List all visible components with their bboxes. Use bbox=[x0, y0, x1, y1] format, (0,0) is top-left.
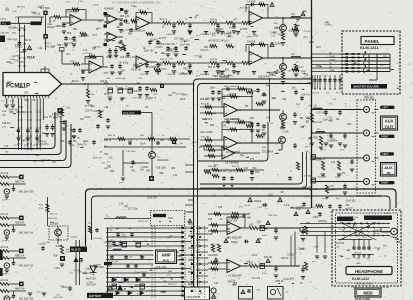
svg-text:CN4: CN4 bbox=[316, 47, 321, 49]
svg-text:2SK30A: 2SK30A bbox=[50, 222, 59, 225]
svg-text:10u 25V: 10u 25V bbox=[311, 92, 320, 94]
svg-text:R31: R31 bbox=[250, 118, 255, 120]
svg-text:+4E: +4E bbox=[51, 46, 55, 48]
svg-text:R44: R44 bbox=[19, 107, 24, 109]
svg-text:0.0022uF: 0.0022uF bbox=[166, 34, 176, 36]
svg-text:IN: IN bbox=[387, 171, 391, 176]
svg-text:R2 1k: R2 1k bbox=[25, 40, 32, 42]
svg-text:1M: 1M bbox=[130, 167, 133, 169]
svg-text:470uF 6E: 470uF 6E bbox=[131, 70, 141, 72]
svg-text:+5V: +5V bbox=[107, 266, 111, 268]
svg-text:+R 2.2k: +R 2.2k bbox=[0, 214, 9, 216]
svg-text:2SC2240A: 2SC2240A bbox=[262, 151, 274, 154]
svg-text:C41: C41 bbox=[290, 278, 295, 280]
svg-text:R44: R44 bbox=[347, 124, 352, 126]
svg-text:22uF 16V: 22uF 16V bbox=[62, 287, 72, 289]
svg-text:R19: R19 bbox=[110, 171, 115, 173]
svg-text:0.0022: 0.0022 bbox=[141, 167, 149, 169]
svg-text:0.047u: 0.047u bbox=[297, 207, 304, 209]
svg-text:R17: R17 bbox=[80, 119, 85, 121]
svg-text:KLB-1469: KLB-1469 bbox=[156, 267, 167, 269]
svg-text:22uF 16V: 22uF 16V bbox=[180, 45, 190, 47]
svg-text:R23 10k: R23 10k bbox=[303, 187, 312, 189]
svg-text:1000: 1000 bbox=[313, 217, 319, 219]
svg-text:680 10uF 16V: 680 10uF 16V bbox=[19, 191, 34, 193]
svg-text:R08: R08 bbox=[53, 256, 58, 258]
svg-text:ad PTT: ad PTT bbox=[93, 265, 101, 267]
svg-text:2.2uF: 2.2uF bbox=[251, 255, 257, 257]
svg-text:C14 47u: C14 47u bbox=[200, 50, 209, 52]
svg-text:R31: R31 bbox=[131, 171, 136, 173]
svg-text:1/2 NJM4580: 1/2 NJM4580 bbox=[225, 162, 239, 164]
svg-text:0.0022uF: 0.0022uF bbox=[200, 74, 210, 76]
svg-text:C14 47u: C14 47u bbox=[221, 96, 230, 98]
svg-text:G18 +100uF: G18 +100uF bbox=[200, 132, 213, 134]
svg-text:470uF 6E: 470uF 6E bbox=[116, 78, 126, 80]
svg-text:1/4W: 1/4W bbox=[182, 95, 187, 97]
svg-text:C39 470p: C39 470p bbox=[268, 215, 278, 217]
svg-text:1/4W: 1/4W bbox=[55, 246, 61, 248]
svg-text:ad PTT: ad PTT bbox=[159, 38, 167, 40]
svg-text:RIGHT: RIGHT bbox=[381, 136, 389, 138]
svg-text:0.0022: 0.0022 bbox=[71, 236, 78, 238]
svg-text:R23 10k: R23 10k bbox=[17, 6, 26, 8]
svg-text:R31 18k: R31 18k bbox=[201, 137, 210, 139]
svg-text:C14 47u: C14 47u bbox=[121, 10, 130, 12]
svg-text:R23 10k: R23 10k bbox=[264, 257, 273, 259]
svg-text:22uF: 22uF bbox=[180, 99, 186, 101]
svg-text:10uF 25V: 10uF 25V bbox=[86, 285, 96, 287]
svg-text:R23 10k: R23 10k bbox=[381, 287, 390, 289]
svg-text:R60 1k: R60 1k bbox=[108, 135, 116, 137]
svg-text:PTT: PTT bbox=[59, 45, 64, 47]
svg-text:0.1uF: 0.1uF bbox=[120, 31, 126, 33]
svg-text:0.047u: 0.047u bbox=[156, 47, 164, 49]
svg-text:R44: R44 bbox=[255, 172, 260, 174]
svg-text:C+7: C+7 bbox=[296, 104, 301, 106]
svg-text:C07 100p: C07 100p bbox=[128, 209, 139, 211]
svg-text:AUX: AUX bbox=[385, 119, 394, 124]
svg-text:1uF BP: 1uF BP bbox=[304, 176, 312, 178]
svg-text:0.0022: 0.0022 bbox=[217, 74, 225, 76]
svg-text:1M: 1M bbox=[280, 192, 283, 194]
svg-text:R50 1k: R50 1k bbox=[184, 68, 192, 70]
svg-text:22uF 16V: 22uF 16V bbox=[144, 51, 154, 53]
svg-text:10uF 25V: 10uF 25V bbox=[323, 119, 333, 121]
svg-text:R20 1k: R20 1k bbox=[210, 19, 218, 21]
svg-text:2.2uF: 2.2uF bbox=[92, 34, 98, 36]
svg-text:100p: 100p bbox=[83, 141, 89, 143]
svg-text:1000p: 1000p bbox=[0, 19, 7, 21]
svg-text:C4A 25R: C4A 25R bbox=[0, 31, 9, 34]
svg-text:R23 10k: R23 10k bbox=[55, 26, 64, 28]
svg-text:R08: R08 bbox=[313, 138, 318, 140]
svg-text:R011 C2: R011 C2 bbox=[168, 284, 177, 286]
svg-text:0.1uF: 0.1uF bbox=[244, 205, 250, 207]
svg-text:C07 100p: C07 100p bbox=[132, 97, 142, 99]
svg-text:C07 100p: C07 100p bbox=[317, 113, 328, 115]
svg-text:C07 100p: C07 100p bbox=[174, 38, 185, 40]
svg-text:R44: R44 bbox=[21, 140, 26, 142]
svg-text:C14 47u: C14 47u bbox=[304, 31, 313, 33]
svg-text:C07 100p: C07 100p bbox=[64, 42, 74, 44]
svg-text:2.2uF: 2.2uF bbox=[313, 246, 319, 248]
svg-text:R44: R44 bbox=[266, 85, 271, 87]
svg-text:1/4W: 1/4W bbox=[351, 287, 356, 289]
svg-text:2.2uF: 2.2uF bbox=[127, 256, 133, 258]
svg-text:R18 100k: R18 100k bbox=[156, 167, 167, 169]
svg-text:10uF 25V: 10uF 25V bbox=[147, 197, 157, 199]
svg-text:10uF: 10uF bbox=[140, 144, 146, 146]
svg-text:0.047u: 0.047u bbox=[384, 213, 391, 215]
svg-text:680 10uF 16V: 680 10uF 16V bbox=[19, 265, 34, 267]
svg-text:22uF 16V: 22uF 16V bbox=[93, 158, 103, 160]
svg-text:· · ·: · · · bbox=[210, 1, 214, 4]
svg-text:ABB 2.4k: ABB 2.4k bbox=[15, 287, 25, 290]
svg-text:1/2NJM2114: 1/2NJM2114 bbox=[132, 31, 146, 33]
svg-text:PHJ: PHJ bbox=[383, 245, 387, 247]
svg-text:CN3: CN3 bbox=[256, 289, 261, 291]
svg-text:0.0022: 0.0022 bbox=[85, 269, 93, 271]
svg-text:0.0022: 0.0022 bbox=[328, 141, 336, 143]
svg-text:MASTER VOLUME: MASTER VOLUME bbox=[354, 85, 379, 89]
svg-text:uPC4570C2 4F1+2: uPC4570C2 4F1+2 bbox=[208, 40, 228, 42]
svg-text:47uF 16V: 47uF 16V bbox=[24, 149, 34, 151]
svg-text:R16 1k: R16 1k bbox=[50, 213, 58, 215]
svg-text:R41 1k: R41 1k bbox=[232, 166, 240, 168]
svg-text:22uF 16V: 22uF 16V bbox=[8, 110, 18, 112]
svg-text:R44: R44 bbox=[171, 168, 176, 170]
svg-text:1M: 1M bbox=[309, 190, 312, 192]
svg-text:0.1uF: 0.1uF bbox=[39, 160, 45, 162]
svg-text:C14 47u: C14 47u bbox=[301, 95, 310, 97]
svg-text:R21 1k: R21 1k bbox=[210, 59, 218, 61]
svg-text:M5218FP: M5218FP bbox=[187, 295, 200, 299]
svg-text:C64: C64 bbox=[104, 154, 109, 156]
svg-text:R30: R30 bbox=[210, 125, 215, 127]
svg-text:C33: C33 bbox=[60, 141, 65, 143]
svg-text:IC 1: IC 1 bbox=[190, 289, 196, 293]
svg-text:0.047u: 0.047u bbox=[374, 230, 381, 232]
svg-text:C52: C52 bbox=[168, 95, 173, 97]
svg-text:100p: 100p bbox=[202, 119, 208, 121]
svg-text:C41: C41 bbox=[266, 117, 271, 119]
svg-text:+15V: +15V bbox=[107, 230, 113, 232]
svg-text:100p: 100p bbox=[270, 33, 276, 35]
svg-text:NJM4560: NJM4560 bbox=[104, 9, 115, 11]
svg-text:4-2. KLM-1410 ( MAIN ) P.C.B: 4-2. KLM-1410 ( MAIN ) P.C.BOARD ( 2/2 ) bbox=[112, 0, 162, 4]
svg-text:CN6B: CN6B bbox=[329, 59, 335, 61]
svg-text:R60 1k: R60 1k bbox=[104, 140, 112, 142]
svg-text:2.2uF: 2.2uF bbox=[67, 38, 73, 40]
svg-text:AUX: AUX bbox=[384, 165, 393, 170]
svg-text:22uF: 22uF bbox=[296, 209, 302, 211]
svg-text:R44: R44 bbox=[55, 268, 60, 270]
svg-text:C18: C18 bbox=[304, 75, 309, 77]
svg-text:DAC OUT: DAC OUT bbox=[124, 112, 135, 115]
svg-text:C18: C18 bbox=[41, 243, 46, 245]
svg-text:C14 47u: C14 47u bbox=[313, 122, 322, 124]
svg-text:HEADPHONE: HEADPHONE bbox=[355, 269, 383, 274]
svg-text:PTT: PTT bbox=[157, 228, 162, 230]
svg-text:R50 1k: R50 1k bbox=[276, 281, 284, 283]
svg-text:0.0022: 0.0022 bbox=[15, 47, 23, 49]
svg-text:1000pF: 1000pF bbox=[47, 27, 55, 29]
svg-text:P.S: P.S bbox=[163, 258, 169, 263]
svg-text:C18: C18 bbox=[244, 168, 249, 170]
svg-text:LEFT: LEFT bbox=[382, 154, 388, 156]
svg-text:PTT: PTT bbox=[15, 18, 20, 20]
svg-text:0.0022: 0.0022 bbox=[52, 114, 60, 116]
svg-text:C07 100p: C07 100p bbox=[93, 238, 103, 240]
svg-text:ABB 2.4k: ABB 2.4k bbox=[15, 221, 25, 224]
svg-text:680 10uF 16V: 680 10uF 16V bbox=[19, 232, 34, 234]
svg-text:0.0022uF: 0.0022uF bbox=[200, 34, 210, 36]
svg-text:0.047uF: 0.047uF bbox=[336, 243, 345, 245]
svg-text:OUT: OUT bbox=[385, 124, 394, 129]
svg-text:C35: C35 bbox=[218, 207, 223, 209]
svg-text:2.2uF: 2.2uF bbox=[93, 4, 99, 6]
svg-text:2.2uF: 2.2uF bbox=[85, 117, 91, 119]
svg-text:C07 100p: C07 100p bbox=[302, 79, 313, 81]
svg-text:820pF: 820pF bbox=[254, 199, 262, 203]
svg-text:R20 47k: R20 47k bbox=[318, 176, 327, 178]
svg-text:PANEL: PANEL bbox=[365, 39, 380, 44]
svg-text:C18: C18 bbox=[231, 280, 236, 282]
svg-text:R50 1k: R50 1k bbox=[233, 96, 241, 98]
svg-text:CN6B: CN6B bbox=[329, 70, 335, 72]
svg-text:R50 1k: R50 1k bbox=[103, 242, 111, 244]
svg-text:22uF 16V: 22uF 16V bbox=[53, 297, 63, 299]
svg-text:0.047u: 0.047u bbox=[74, 270, 81, 272]
svg-text:0.047u: 0.047u bbox=[41, 144, 49, 146]
svg-text:+4E: +4E bbox=[51, 20, 55, 22]
svg-text:10uF 25V: 10uF 25V bbox=[363, 97, 373, 99]
svg-text:0.0022: 0.0022 bbox=[229, 27, 237, 29]
svg-text:1M: 1M bbox=[223, 125, 226, 127]
svg-text:KLB-75: KLB-75 bbox=[72, 248, 82, 252]
svg-text:R50 1k: R50 1k bbox=[278, 34, 286, 36]
svg-text:R4 1k 1/2W: R4 1k 1/2W bbox=[49, 116, 62, 118]
svg-text:C14 47u: C14 47u bbox=[228, 172, 237, 174]
svg-text:BATTERY: BATTERY bbox=[89, 294, 102, 298]
svg-text:ad PTT: ad PTT bbox=[2, 274, 10, 276]
svg-text:R50 1k: R50 1k bbox=[281, 258, 289, 260]
svg-text:R05 1.8k: R05 1.8k bbox=[120, 16, 130, 18]
svg-text:PH2-1(2): PH2-1(2) bbox=[48, 218, 57, 220]
svg-text:0.0022: 0.0022 bbox=[287, 255, 295, 257]
svg-text:1M: 1M bbox=[66, 54, 69, 56]
svg-text:C18: C18 bbox=[228, 218, 233, 220]
svg-text:0.047uF: 0.047uF bbox=[247, 42, 256, 44]
svg-text:22uF 16V: 22uF 16V bbox=[109, 261, 119, 263]
svg-text:R40 22k: R40 22k bbox=[208, 166, 217, 168]
svg-text:ad PTT: ad PTT bbox=[288, 71, 296, 73]
svg-text:+R 2.2k: +R 2.2k bbox=[0, 280, 9, 282]
svg-text:RIGHT: RIGHT bbox=[381, 183, 389, 185]
svg-text:R44 470k: R44 470k bbox=[8, 40, 19, 42]
svg-text:0.0022uF: 0.0022uF bbox=[166, 74, 176, 76]
svg-text:ad PTT: ad PTT bbox=[2, 241, 10, 243]
svg-text:C44: C44 bbox=[214, 283, 219, 285]
svg-text:22uF 16V: 22uF 16V bbox=[3, 298, 13, 300]
svg-text:R29 +100uF 4E: R29 +100uF 4E bbox=[224, 119, 240, 121]
svg-text:100: 100 bbox=[249, 223, 254, 226]
svg-text:C42 1000u F.F: C42 1000u F.F bbox=[120, 57, 136, 59]
svg-text:ad PTT: ad PTT bbox=[85, 105, 93, 107]
svg-text:0.1u: 0.1u bbox=[70, 145, 75, 147]
svg-text:1M: 1M bbox=[168, 140, 171, 142]
svg-text:KLM-1412 1000: KLM-1412 1000 bbox=[356, 284, 373, 286]
svg-text:0.1uF: 0.1uF bbox=[283, 131, 289, 133]
svg-text:LEFT: LEFT bbox=[382, 107, 388, 109]
svg-text:510A: 510A bbox=[27, 56, 35, 60]
svg-text:0.1uF: 0.1uF bbox=[66, 252, 72, 254]
svg-text:BCK A: BCK A bbox=[72, 80, 79, 83]
svg-text:PTT: PTT bbox=[304, 38, 309, 40]
svg-text:PTT: PTT bbox=[239, 207, 244, 209]
svg-text:ABB 2.4k: ABB 2.4k bbox=[15, 180, 25, 183]
svg-text:R31: R31 bbox=[225, 69, 230, 71]
svg-text:100p: 100p bbox=[210, 87, 216, 89]
svg-text:C41: C41 bbox=[33, 161, 38, 163]
svg-text:10uF 25V: 10uF 25V bbox=[82, 273, 92, 275]
svg-text:1/4W: 1/4W bbox=[280, 129, 286, 131]
svg-text:R29 +100uF 4E: R29 +100uF 4E bbox=[224, 86, 240, 88]
svg-text:10uF 25V: 10uF 25V bbox=[346, 201, 356, 203]
svg-text:C07 100p: C07 100p bbox=[94, 267, 105, 269]
svg-text:100p: 100p bbox=[125, 23, 131, 25]
svg-text:0.047u: 0.047u bbox=[283, 279, 291, 281]
svg-text:PCM61P: PCM61P bbox=[6, 84, 30, 90]
svg-text:C26 47u: C26 47u bbox=[2, 123, 11, 125]
svg-text:C14 47u: C14 47u bbox=[297, 249, 306, 251]
svg-text:R6A: R6A bbox=[48, 23, 53, 26]
svg-text:1M: 1M bbox=[194, 17, 197, 19]
svg-text:0.0022: 0.0022 bbox=[44, 43, 51, 45]
svg-text:R27 680: R27 680 bbox=[240, 7, 249, 9]
svg-text:CN6B: CN6B bbox=[329, 56, 335, 58]
svg-text:0.047u: 0.047u bbox=[328, 190, 336, 192]
svg-text:10V: 10V bbox=[2, 127, 6, 129]
svg-text:10uF 25V: 10uF 25V bbox=[227, 220, 237, 222]
svg-text:+4E: +4E bbox=[289, 207, 293, 209]
svg-text:25V: 25V bbox=[336, 247, 340, 249]
svg-text:C18: C18 bbox=[268, 194, 273, 196]
svg-text:R13: R13 bbox=[98, 21, 103, 23]
svg-text:C70 10uF: C70 10uF bbox=[126, 151, 136, 153]
svg-text:4.7 PTT: 4.7 PTT bbox=[140, 74, 148, 76]
svg-text:1M: 1M bbox=[390, 237, 393, 239]
svg-text:CN2: CN2 bbox=[168, 217, 173, 220]
svg-text:0.047u: 0.047u bbox=[95, 47, 102, 49]
svg-text:u2uF/16V: u2uF/16V bbox=[208, 255, 218, 257]
svg-text:0.047u: 0.047u bbox=[325, 24, 333, 26]
svg-text:R50 1k: R50 1k bbox=[354, 253, 362, 255]
svg-text:-15V: -15V bbox=[107, 248, 112, 250]
svg-text:ad PTT: ad PTT bbox=[240, 29, 248, 31]
svg-text:R50 1k: R50 1k bbox=[373, 233, 381, 235]
svg-text:MIDI: MIDI bbox=[363, 290, 372, 295]
svg-text:0.0022: 0.0022 bbox=[149, 67, 157, 69]
svg-text:C14 47u: C14 47u bbox=[85, 111, 94, 113]
svg-text:R1A: R1A bbox=[2, 110, 7, 113]
svg-text:PTT: PTT bbox=[167, 275, 172, 277]
svg-text:0.1uF: 0.1uF bbox=[240, 171, 246, 173]
svg-text:DNP2-1/3: DNP2-1/3 bbox=[138, 221, 148, 223]
svg-text:C07 100p: C07 100p bbox=[365, 98, 376, 100]
svg-text:+4E: +4E bbox=[325, 22, 330, 24]
svg-text:C41: C41 bbox=[44, 117, 49, 119]
svg-text:C60 470uF 6E: C60 470uF 6E bbox=[160, 44, 175, 46]
svg-text:1/2 M5218FP: 1/2 M5218FP bbox=[228, 238, 242, 240]
svg-text:+R 2.2k: +R 2.2k bbox=[0, 247, 9, 249]
svg-text:IC: IC bbox=[200, 293, 203, 295]
svg-text:100p: 100p bbox=[253, 35, 259, 37]
svg-text:R23 10k: R23 10k bbox=[147, 291, 156, 293]
svg-text:R2A1 JPJ2T2E(2)1 1000: R2A1 JPJ2T2E(2)1 1000 bbox=[356, 195, 382, 198]
svg-text:PTT: PTT bbox=[302, 127, 307, 129]
svg-text:PTT: PTT bbox=[250, 159, 255, 161]
svg-text:ABB 2.4k: ABB 2.4k bbox=[15, 254, 25, 257]
svg-text:ad PTT: ad PTT bbox=[345, 208, 353, 210]
svg-text:CN8A(L): CN8A(L) bbox=[318, 220, 327, 223]
svg-text:KLM-1412: KLM-1412 bbox=[352, 277, 369, 281]
svg-text:KLM-1411: KLM-1411 bbox=[360, 45, 379, 50]
svg-text:0.047uF: 0.047uF bbox=[247, 2, 256, 4]
svg-text:0.047u: 0.047u bbox=[145, 99, 152, 101]
svg-text:R08: R08 bbox=[67, 33, 72, 35]
svg-text:+R 2.2k: +R 2.2k bbox=[0, 173, 9, 175]
svg-text:R31 18k: R31 18k bbox=[201, 104, 210, 106]
svg-text:R15 1k: R15 1k bbox=[160, 59, 168, 61]
svg-text:PTT: PTT bbox=[166, 237, 171, 239]
svg-text:AMP: AMP bbox=[161, 252, 171, 257]
svg-text:1uF: 1uF bbox=[305, 151, 309, 153]
svg-text:R08: R08 bbox=[6, 62, 11, 64]
svg-text:C07 100p: C07 100p bbox=[235, 123, 246, 125]
svg-text:R50 1k: R50 1k bbox=[166, 51, 174, 53]
svg-text:R14 1k: R14 1k bbox=[160, 19, 168, 21]
svg-text:0.1uF: 0.1uF bbox=[340, 229, 346, 231]
svg-text:0.047u: 0.047u bbox=[192, 142, 199, 144]
svg-text:1/2 M5218FP: 1/2 M5218FP bbox=[228, 276, 242, 278]
svg-text:+4E: +4E bbox=[104, 107, 109, 109]
svg-text:R40 22k: R40 22k bbox=[218, 171, 227, 173]
svg-text:R50 1k: R50 1k bbox=[82, 35, 90, 37]
svg-text:IC8: IC8 bbox=[24, 90, 29, 94]
svg-text:IN L: IN L bbox=[2, 23, 7, 26]
svg-text:820pF: 820pF bbox=[231, 241, 239, 244]
svg-text:C63: C63 bbox=[257, 221, 262, 223]
svg-text:2SC2240A: 2SC2240A bbox=[157, 159, 169, 162]
svg-text:0.047u: 0.047u bbox=[318, 159, 326, 161]
svg-text:R42: R42 bbox=[208, 219, 213, 221]
svg-text:47uF: 47uF bbox=[262, 273, 268, 275]
svg-text:22uF 16V: 22uF 16V bbox=[135, 272, 145, 274]
svg-text:22uF 16V: 22uF 16V bbox=[117, 236, 127, 238]
svg-text:C07 100p: C07 100p bbox=[83, 53, 93, 55]
svg-text:R22 1k: R22 1k bbox=[208, 67, 216, 69]
svg-text:R44: R44 bbox=[301, 71, 306, 73]
svg-text:R61: R61 bbox=[160, 140, 165, 142]
svg-text:47uF: 47uF bbox=[262, 235, 268, 237]
svg-text:C14 47u: C14 47u bbox=[251, 278, 260, 280]
svg-text:2SC2240A: 2SC2240A bbox=[258, 76, 270, 79]
svg-text:86uF 16V: 86uF 16V bbox=[86, 278, 96, 280]
svg-text:ad PTT: ad PTT bbox=[2, 200, 10, 202]
svg-text:+4E: +4E bbox=[146, 278, 150, 280]
